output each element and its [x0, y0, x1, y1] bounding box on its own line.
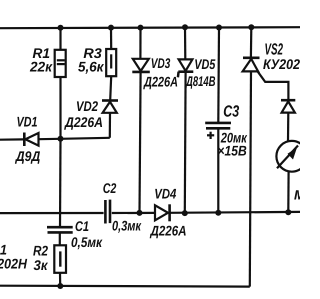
label VD3 (VD3): [152, 58, 171, 68]
wire x61 down through C1 R2: [59, 139, 62, 227]
diode VD6: [281, 99, 295, 102]
label КУ202Н (KU202N_vs2): [263, 59, 309, 69]
diode VD1: [23, 133, 26, 147]
capacitor C3: [205, 122, 231, 125]
resistor R3: [106, 49, 116, 76]
wire VD3 bottom lead: [140, 72, 141, 213]
wire mid-left rail: [0, 138, 23, 141]
diode VD2: [102, 99, 118, 102]
label Д814В (D814V): [185, 76, 215, 89]
node junction dot mid-left x61: [58, 136, 64, 142]
wire R3 to VD2: [110, 76, 111, 100]
label ×15В (x15V): [218, 146, 246, 156]
label КУ202Н (KU202N_vs1): [0, 259, 27, 269]
label Д226А (D226A_vd3): [143, 77, 177, 90]
capacitor C2: [104, 200, 107, 224]
lamp HL (galvanometer circle): [276, 141, 307, 172]
label 20мк (20mk): [221, 133, 248, 143]
label VD2 (VD2): [77, 101, 98, 111]
label С1 (C1): [76, 221, 89, 231]
wire VD3 top lead: [139, 28, 141, 59]
wire VS2 cathode down to bottom rail: [250, 71, 251, 286]
node junction dot bottom rail x60: [57, 283, 63, 289]
wire VD5 bottom lead: [184, 72, 187, 213]
label Д9Д (D9D): [15, 151, 40, 164]
wire mid rail between C2 and VD4: [112, 212, 155, 214]
wire VD5 top lead: [184, 27, 187, 59]
label 0,5мк (0_5mk): [72, 237, 103, 249]
resistor R1: [55, 50, 66, 77]
label VS1 (VS1_clip): [0, 245, 6, 255]
label R2 (R2): [33, 246, 48, 256]
label С3 (C3): [224, 105, 239, 116]
wire C3 bottom lead: [217, 128, 219, 213]
wire mid rail left segment: [0, 212, 104, 214]
wire VD2 bottom to corner: [109, 113, 111, 138]
node junction dot mid rail x139: [137, 210, 143, 216]
label 5,6к (5_6k): [78, 62, 104, 74]
wire VD1 to corner: [39, 138, 110, 139]
label VD1 (VD1): [17, 117, 37, 127]
node junction dot mid rail x186: [182, 210, 188, 216]
wire bottom rail: [0, 285, 250, 288]
label С2 (C2): [103, 183, 116, 193]
label 0,3мк (0_3mk): [113, 221, 142, 233]
node junction dot top rail x61: [58, 25, 64, 31]
label 3к (3k): [34, 260, 48, 270]
thyristor VS2: [243, 56, 260, 59]
wire lamp bottom lead: [287, 172, 290, 213]
wire C3 top lead: [217, 28, 220, 123]
label М (M_lamp): [294, 190, 305, 199]
label Д226А (D226A_vd4): [150, 226, 186, 239]
diode VD3: [133, 59, 149, 71]
node junction dot top rail x184: [182, 24, 188, 30]
node junction dot mid rail x217: [215, 210, 221, 216]
label 22к (22k): [30, 62, 53, 72]
node junction dot top rail x140: [138, 25, 144, 31]
zener diode VD5: [179, 59, 193, 71]
node junction dot top rail x215: [216, 25, 222, 31]
wire mid rail right segment: [170, 211, 300, 214]
wire C1 to R2: [59, 232, 61, 245]
wire VS2 anode lead: [250, 27, 253, 58]
wire VD6 to lamp: [287, 113, 289, 142]
wire R1 top lead: [59, 28, 61, 50]
wire R1 bottom lead: [59, 77, 61, 139]
label VD4 (VD4): [155, 189, 176, 199]
wire VS2 gate: [258, 72, 289, 100]
diode VD4: [155, 205, 168, 220]
resistor R2: [54, 245, 66, 272]
node junction dot top rail x250: [248, 24, 254, 30]
label VD5 (VD5): [195, 59, 215, 69]
capacitor C1: [47, 226, 73, 229]
node junction dot mid rail x288: [285, 209, 291, 215]
label R1 (R1): [33, 48, 50, 58]
wire top rail: [0, 27, 300, 28]
label R3 (R3): [84, 48, 102, 58]
label VS2 (VS2): [265, 43, 283, 54]
node junction dot top rail x111: [108, 25, 114, 31]
wire R3 top lead: [110, 28, 112, 49]
label Д226А (D226A_vd2): [64, 117, 102, 130]
wire R2 bottom lead: [59, 273, 61, 286]
